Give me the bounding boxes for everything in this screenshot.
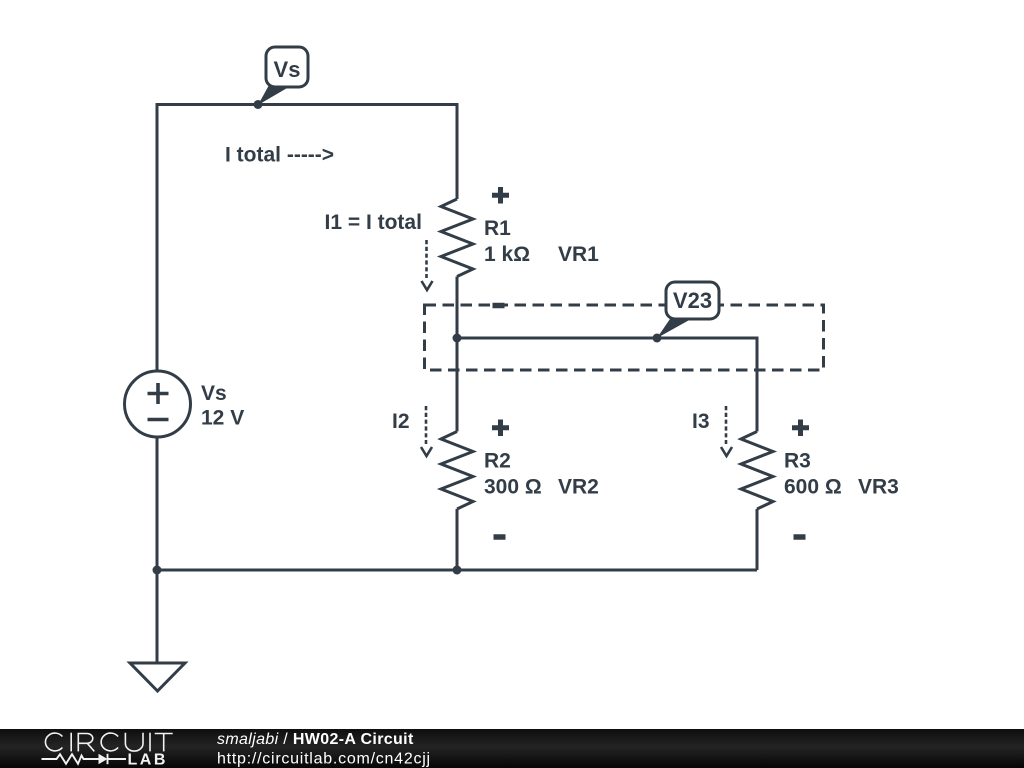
svg-text:R2: R2 (484, 449, 511, 472)
svg-text:Vs: Vs (274, 57, 301, 82)
svg-text:600 Ω: 600 Ω (784, 476, 842, 499)
svg-text:LAB: LAB (128, 752, 168, 768)
svg-text:1 kΩ: 1 kΩ (484, 243, 530, 266)
svg-text:300 Ω: 300 Ω (484, 476, 542, 499)
svg-text:I2: I2 (392, 410, 410, 433)
svg-text:VR1: VR1 (558, 243, 599, 266)
svg-text:I1 = I total: I1 = I total (325, 211, 422, 234)
svg-text:VR3: VR3 (858, 476, 899, 499)
svg-text:12 V: 12 V (201, 407, 244, 430)
svg-text:smaljabi / HW02-A Circuit: smaljabi / HW02-A Circuit (217, 731, 414, 748)
svg-text:VR2: VR2 (558, 476, 599, 499)
svg-text:R1: R1 (484, 217, 511, 240)
svg-text:I total ----->: I total -----> (225, 144, 334, 167)
svg-text:R3: R3 (784, 449, 811, 472)
svg-text:I3: I3 (692, 410, 710, 433)
svg-text:http://circuitlab.com/cn42cjj: http://circuitlab.com/cn42cjj (217, 751, 431, 768)
svg-text:V23: V23 (673, 288, 712, 313)
svg-text:Vs: Vs (201, 382, 227, 405)
